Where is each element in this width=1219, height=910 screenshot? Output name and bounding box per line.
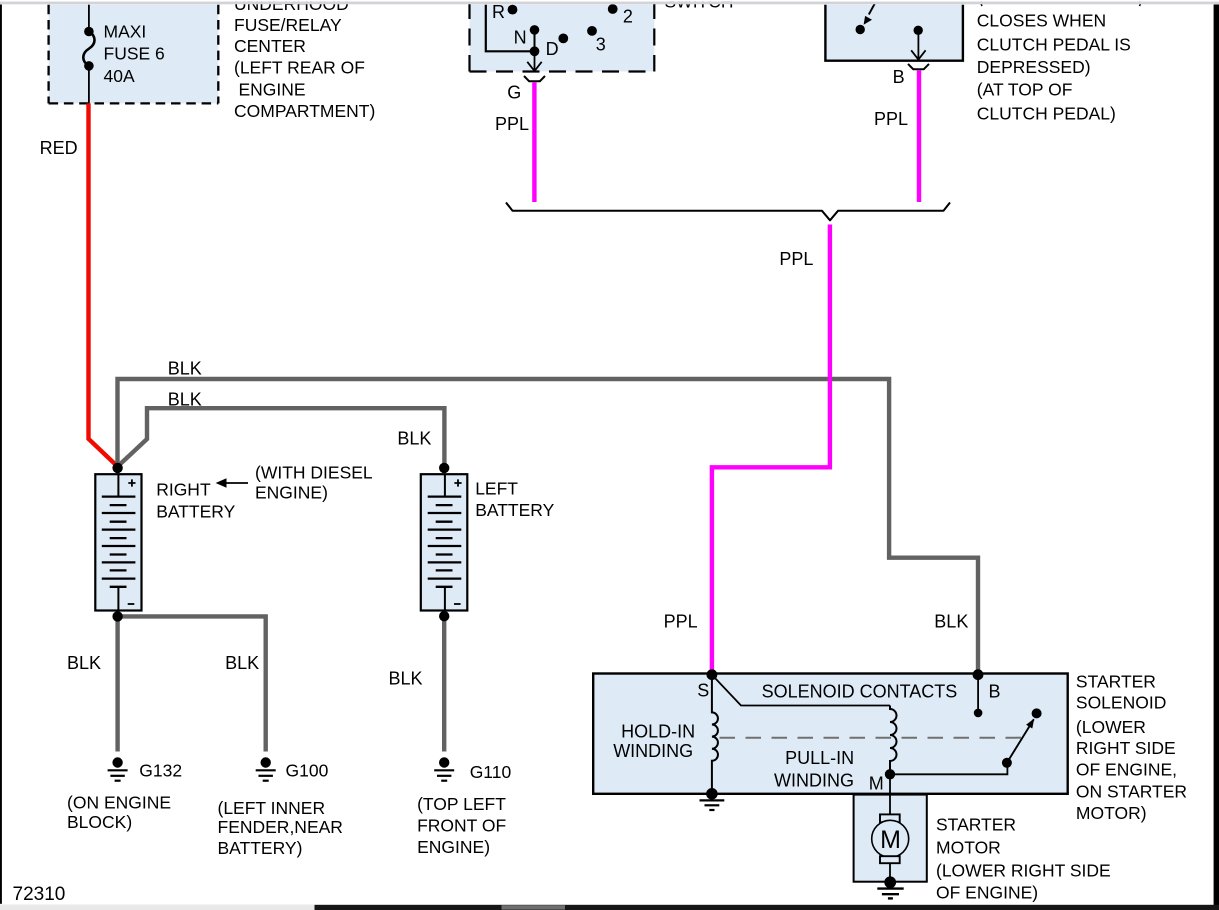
annotation arrow (with diesel engine) (216, 478, 248, 488)
svg-text:HOLD-IN: HOLD-IN (621, 722, 695, 742)
svg-text:BATTERY: BATTERY (156, 501, 235, 521)
wire BLK to G132 (115, 616, 119, 751)
svg-text:M: M (869, 773, 884, 793)
label STARTER SOLENOID (LOWER RIGHT SIDE OF ENGINE, ON STARTER MOTOR) (1076, 671, 1187, 823)
wire PPL from G (532, 82, 536, 202)
svg-text:FENDER,NEAR: FENDER,NEAR (218, 817, 343, 837)
svg-text:M: M (880, 826, 901, 854)
svg-text:(LEFT INNER: (LEFT INNER (218, 798, 326, 818)
svg-text:BLK: BLK (397, 429, 431, 449)
wire BLK to G100 (118, 616, 266, 751)
ground (hold-in winding) (700, 788, 725, 810)
switch contact (left) (856, 25, 865, 34)
ground G110 (434, 757, 454, 780)
svg-text:STARTER: STARTER (936, 815, 1016, 835)
svg-text:BLOCK): BLOCK) (67, 812, 132, 832)
contact point (upper) (1032, 708, 1042, 718)
contact arm pivot (1002, 758, 1012, 768)
arrow to connector B (911, 30, 925, 59)
svg-text:PULL-IN: PULL-IN (785, 748, 854, 768)
B contact stem (977, 675, 979, 713)
svg-text:BATTERY: BATTERY (475, 500, 554, 520)
svg-text:CENTER: CENTER (234, 36, 306, 56)
svg-text:D: D (546, 39, 559, 59)
label HOLD-IN WINDING (613, 722, 695, 762)
svg-text:(LOWER RIGHT SIDE: (LOWER RIGHT SIDE (936, 861, 1111, 881)
wire RED from fuse to battery (89, 103, 118, 466)
svg-text:MAXI: MAXI (104, 21, 147, 41)
svg-text:WINDING: WINDING (613, 741, 693, 761)
svg-text:OF ENGINE): OF ENGINE) (936, 883, 1038, 903)
page right border (1214, 5, 1219, 907)
contact N (530, 25, 540, 35)
label (TOP LEFT FRONT OF ENGINE) (417, 794, 506, 857)
label PULL-IN WINDING (774, 748, 854, 790)
svg-text:3: 3 (596, 35, 606, 55)
svg-text:OF ENGINE,: OF ENGINE, (1076, 760, 1177, 780)
svg-text:PPL: PPL (779, 249, 813, 269)
window bottom scrollbar: thumb (502, 905, 566, 909)
svg-text:BLK: BLK (389, 669, 423, 689)
left battery (421, 474, 468, 610)
park/neutral position switch box (dashed, cut off at top) (470, 2, 655, 72)
svg-text:2: 2 (623, 7, 633, 27)
contact R (508, 5, 518, 15)
node G junction (530, 46, 540, 56)
svg-text:SOLENOID CONTACTS: SOLENOID CONTACTS (762, 682, 958, 702)
label STARTER MOTOR (LOWER RIGHT SIDE OF ENGINE) (936, 815, 1111, 903)
node left battery + (439, 463, 449, 473)
label LEFT BATTERY (475, 479, 554, 520)
svg-text:FRONT OF: FRONT OF (417, 816, 506, 836)
svg-text:(ON ENGINE: (ON ENGINE (67, 792, 171, 812)
window bottom scrollbar: dark region (315, 905, 1219, 910)
switch contact (right) (914, 26, 923, 35)
splice brace (506, 203, 950, 221)
svg-text:BLK: BLK (225, 653, 259, 673)
window top edge (white sliver + gray strip) (0, 0, 1219, 2)
svg-text:COMPARTMENT): COMPARTMENT) (234, 101, 375, 121)
wire BLK battery+ to solenoid B (118, 379, 979, 674)
svg-text:ON STARTER: ON STARTER (1076, 782, 1187, 802)
label CLOSES WHEN CLUTCH PEDAL IS DEPRESSED (977, 11, 1131, 124)
page left border (0, 5, 2, 904)
ground (starter motor) (877, 876, 903, 898)
svg-text:STARTER: STARTER (1076, 671, 1156, 691)
wire BLK to G110 (442, 616, 446, 751)
underhood fuse/relay center box (dashed, cut off at top) (49, 5, 219, 104)
contact 3 (587, 26, 597, 36)
svg-text:G110: G110 (470, 762, 512, 782)
hold-in winding coil (712, 675, 718, 793)
svg-text:G100: G100 (286, 761, 329, 781)
node B (973, 669, 984, 680)
wire motor to ground (889, 863, 891, 882)
dashed coupling line (720, 737, 1022, 739)
svg-text:(TOP LEFT: (TOP LEFT (417, 794, 506, 814)
svg-text:RIGHT: RIGHT (156, 480, 211, 500)
node M (885, 769, 895, 779)
starter motor box (854, 795, 927, 882)
svg-text:PPL: PPL (495, 114, 529, 134)
contact arm arrow (1007, 719, 1034, 763)
label RIGHT BATTERY (156, 480, 235, 522)
connector cup B (908, 64, 929, 69)
svg-text:40A: 40A (104, 66, 135, 86)
svg-text:R: R (492, 2, 505, 22)
label (ON ENGINE BLOCK) (67, 792, 171, 832)
svg-text:72310: 72310 (13, 884, 66, 905)
svg-text:MOTOR: MOTOR (936, 838, 1001, 858)
svg-text:CLUTCH PEDAL): CLUTCH PEDAL) (977, 103, 1116, 123)
fragment of text above clutch annotation (981, 1, 1140, 6)
contact D (558, 34, 568, 44)
svg-text:BLK: BLK (168, 389, 202, 409)
svg-text:WINDING: WINDING (774, 770, 854, 790)
svg-text:G: G (507, 82, 521, 102)
svg-text:RIGHT SIDE: RIGHT SIDE (1076, 738, 1176, 758)
ground G100 (256, 757, 276, 780)
node right battery + (112, 463, 122, 473)
svg-text:G132: G132 (139, 761, 182, 781)
svg-text:BLK: BLK (67, 653, 101, 673)
svg-text:BLK: BLK (168, 358, 202, 378)
selector common wire (L-shape) (486, 5, 535, 52)
wire M to motor (889, 774, 891, 814)
starter solenoid box (593, 674, 1067, 794)
wire S to pull-in winding (712, 675, 890, 706)
svg-text:(WITH DIESEL: (WITH DIESEL (255, 462, 373, 482)
svg-text:MOTOR): MOTOR) (1076, 803, 1147, 823)
wire PPL from brace (712, 225, 830, 674)
svg-text:PPL: PPL (874, 109, 908, 129)
fuse feed wire (top) (88, 5, 90, 31)
svg-text:DEPRESSED): DEPRESSED) (977, 57, 1091, 77)
label UNDERHOOD FUSE/RELAY CENTER (234, 0, 375, 121)
wire M to contact arm (890, 763, 1007, 775)
svg-text:BATTERY): BATTERY) (218, 838, 303, 858)
svg-text:BLK: BLK (934, 611, 968, 631)
svg-text:ENGINE): ENGINE) (417, 837, 490, 857)
wire PPL from B (917, 70, 921, 202)
node left battery - (439, 611, 449, 621)
svg-text:CLOSES WHEN: CLOSES WHEN (977, 11, 1106, 31)
label (LEFT INNER FENDER,NEAR BATTERY) (218, 798, 343, 858)
svg-text:FUSE 6: FUSE 6 (104, 44, 165, 64)
ground G132 (108, 757, 128, 780)
window bottom scrollbar: light track (0, 905, 315, 910)
motor brush (bottom) (880, 856, 900, 863)
switch actuator arrow (864, 4, 875, 25)
svg-text:(LEFT REAR OF: (LEFT REAR OF (234, 57, 365, 77)
svg-text:B: B (989, 682, 1001, 702)
label MAXI FUSE 6 40A (104, 21, 165, 85)
svg-text:LEFT: LEFT (475, 479, 518, 499)
arrow to connector G (527, 51, 541, 71)
node right battery - (112, 611, 122, 621)
maxi fuse 6 40A symbol (83, 27, 94, 71)
wire N to junction (534, 30, 536, 51)
B contact point (974, 709, 983, 718)
svg-text:PPL: PPL (664, 611, 698, 631)
right battery (95, 474, 141, 610)
svg-text:N: N (514, 27, 527, 47)
svg-text:SOLENOID: SOLENOID (1076, 693, 1166, 713)
pull-in winding coil (890, 706, 897, 775)
clutch pedal position switch box (cut off at top) (825, 5, 963, 61)
label (WITH DIESEL ENGINE) (255, 462, 373, 502)
fuse output wire to box edge (88, 66, 90, 104)
svg-text:B: B (893, 67, 905, 87)
contact 2 (608, 4, 618, 14)
svg-text:(AT TOP OF: (AT TOP OF (977, 79, 1073, 99)
wire BLK battery+ to left battery (118, 408, 445, 466)
node S (707, 669, 718, 680)
svg-text:ENGINE): ENGINE) (255, 482, 328, 502)
svg-text:CLUTCH PEDAL IS: CLUTCH PEDAL IS (977, 35, 1131, 55)
svg-text:RED: RED (40, 138, 78, 158)
connector cup G (524, 76, 545, 81)
svg-text:ENGINE: ENGINE (239, 79, 306, 99)
motor armature circle (872, 820, 909, 857)
svg-text:S: S (697, 680, 709, 700)
motor M1 brush (top) (880, 814, 900, 822)
svg-text:FUSE/RELAY: FUSE/RELAY (234, 15, 342, 35)
svg-text:(LOWER: (LOWER (1076, 717, 1146, 737)
